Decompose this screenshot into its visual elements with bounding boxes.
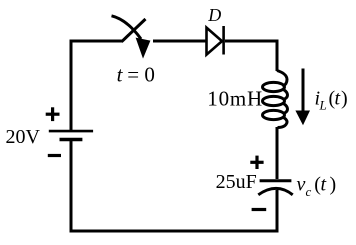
svg-text:t: t <box>321 174 327 196</box>
svg-text:v: v <box>297 174 306 196</box>
svg-text:): ) <box>330 174 337 196</box>
svg-text:c: c <box>306 184 312 199</box>
svg-text:D: D <box>207 5 221 25</box>
svg-text:10mH: 10mH <box>207 86 263 110</box>
svg-text:= 0: = 0 <box>127 63 155 87</box>
svg-text:20V: 20V <box>6 126 41 148</box>
svg-text:): ) <box>341 88 348 110</box>
svg-text:t: t <box>117 63 124 87</box>
svg-text:t: t <box>335 88 341 110</box>
svg-text:L: L <box>319 98 327 113</box>
svg-text:25uF: 25uF <box>216 171 257 193</box>
